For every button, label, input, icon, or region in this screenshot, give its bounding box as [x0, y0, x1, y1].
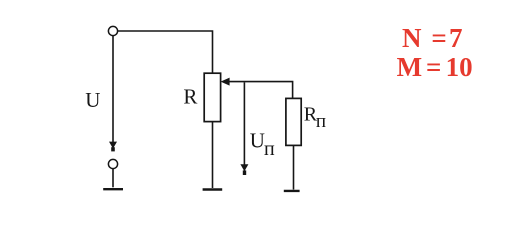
- svg-text:R: R: [183, 84, 197, 108]
- svg-text:U: U: [85, 88, 100, 112]
- svg-text:п: п: [264, 138, 275, 160]
- svg-text:U: U: [250, 128, 265, 152]
- svg-text:M=10: M=10: [397, 52, 473, 82]
- svg-text:п: п: [316, 111, 326, 132]
- svg-text:N=7: N=7: [402, 23, 463, 53]
